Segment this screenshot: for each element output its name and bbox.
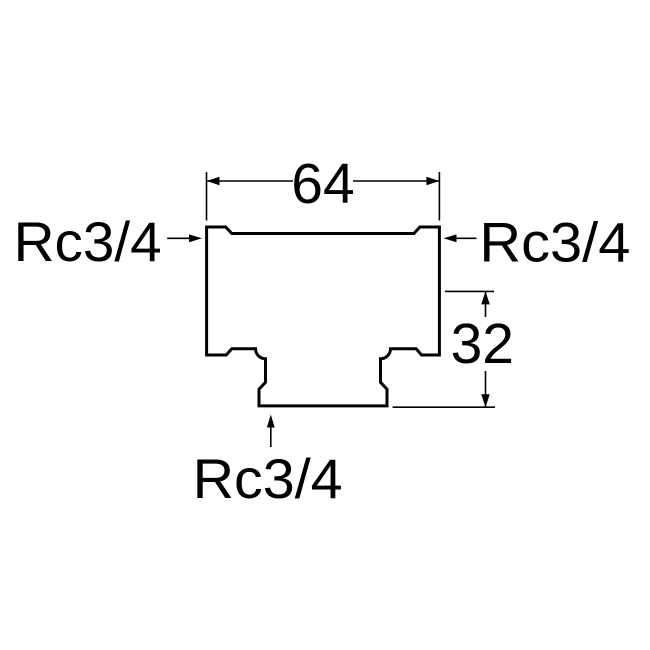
- svg-text:Rc3/4: Rc3/4: [193, 447, 343, 510]
- leader arrow left shaft: [167, 237, 190, 239]
- svg-text:64: 64: [291, 152, 354, 216]
- arrowhead 32 bottom: [481, 394, 490, 407]
- leader arrow right shaft: [455, 237, 477, 239]
- svg-text:Rc3/4: Rc3/4: [479, 211, 630, 274]
- extension line left of 64 dimension: [206, 172, 208, 221]
- dimension line 64 left segment: [207, 180, 294, 182]
- arrowhead 64 right: [426, 177, 439, 186]
- arrowhead 64 left: [207, 177, 220, 186]
- leader arrowhead left: [189, 234, 202, 242]
- leader arrowhead right: [444, 234, 457, 242]
- leader arrowhead bottom: [267, 415, 275, 428]
- svg-text:Rc3/4: Rc3/4: [14, 210, 162, 273]
- extension line bottom of 32 dimension: [393, 406, 495, 408]
- extension line top of 32 dimension: [445, 290, 494, 292]
- dimension line 64 right segment: [353, 180, 439, 182]
- leader arrow bottom shaft: [270, 427, 272, 447]
- arrowhead 32 top: [481, 291, 490, 304]
- dimension line 32 upper segment: [485, 291, 487, 317]
- dimension line 32 lower segment: [485, 371, 487, 407]
- tee fitting body outline: [207, 227, 440, 406]
- svg-text:32: 32: [451, 312, 514, 376]
- extension line right of 64 dimension: [438, 172, 440, 221]
